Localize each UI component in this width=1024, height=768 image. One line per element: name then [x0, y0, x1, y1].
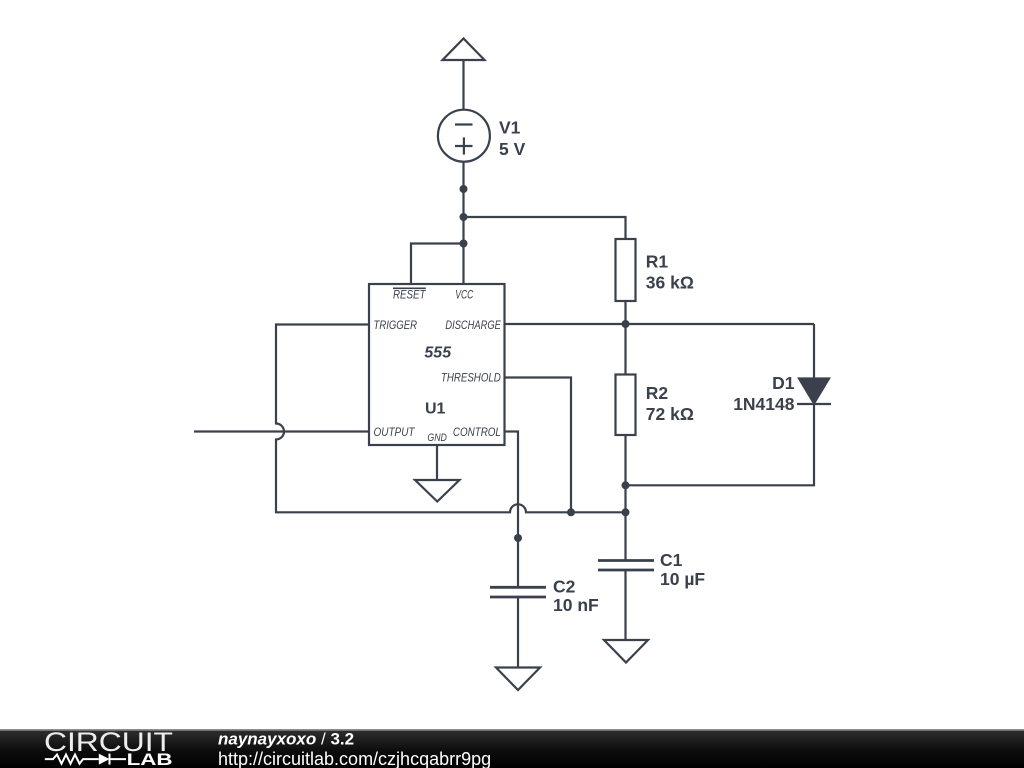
svg-text:RESET: RESET [393, 287, 427, 301]
svg-text:10 nF: 10 nF [553, 595, 599, 615]
svg-text:CONTROL: CONTROL [453, 425, 501, 439]
svg-text:555: 555 [424, 345, 452, 362]
wire to diode anode [813, 324, 815, 378]
wire OUTPUT stub [194, 430, 369, 432]
wire GND pin [436, 445, 438, 480]
svg-text:1N4148: 1N4148 [733, 394, 795, 414]
resistor R1 [616, 239, 636, 301]
svg-text:naynayxoxo / 3.2: naynayxoxo / 3.2 [218, 730, 354, 749]
capacitor C1 [598, 561, 654, 571]
svg-text:LAB: LAB [127, 751, 173, 768]
svg-text:http://circuitlab.com/czjhcqab: http://circuitlab.com/czjhcqabrr9pg [218, 749, 491, 768]
wire R2 bottom to C1 top [624, 435, 626, 561]
svg-text:TRIGGER: TRIGGER [374, 318, 418, 332]
ground below C1 [604, 640, 648, 663]
ground below C2 [496, 668, 540, 691]
svg-text:V1: V1 [499, 117, 521, 137]
wire C1 to ground [624, 570, 626, 640]
CircuitLab logo [44, 727, 173, 768]
svg-text:D1: D1 [772, 373, 795, 393]
svg-text:VCC: VCC [455, 287, 473, 301]
junction dot [460, 240, 468, 248]
capacitor C2 [490, 587, 546, 597]
svg-text:C2: C2 [553, 577, 576, 597]
svg-text:THRESHOLD: THRESHOLD [441, 370, 501, 384]
svg-text:DISCHARGE: DISCHARGE [445, 318, 501, 332]
wire R1 bottom to R2 top [624, 301, 626, 375]
wire to RESET pin [411, 244, 464, 285]
wire CONTROL to C2 [505, 432, 519, 587]
label V1 5 V [499, 117, 526, 159]
junction dot [622, 320, 630, 328]
svg-text:72 kΩ: 72 kΩ [646, 404, 694, 424]
wire V+ to V1 [462, 60, 464, 110]
svg-text:C1: C1 [660, 550, 683, 570]
junction dot [460, 213, 468, 221]
svg-text:R2: R2 [646, 383, 669, 403]
wire to R1 top [464, 217, 626, 239]
junction dot [514, 534, 522, 542]
junction dot [622, 481, 630, 489]
power supply V+ symbol [443, 39, 485, 61]
label C1 10 uF [660, 550, 705, 589]
junction dot [460, 185, 468, 193]
label D1 1N4148 [733, 373, 795, 414]
diode D1 [797, 379, 831, 405]
ground at GND pin [415, 480, 460, 502]
junction dot [567, 508, 575, 516]
footer bar [0, 729, 1024, 768]
wire C2 to ground [517, 597, 519, 668]
svg-text:GND: GND [427, 432, 447, 444]
svg-text:10 µF: 10 µF [660, 569, 705, 589]
junction dot [622, 508, 630, 516]
label R1 36 kohm [646, 252, 694, 293]
wire V1 to VCC pin [462, 162, 464, 284]
svg-text:R1: R1 [646, 252, 669, 272]
voltage source V1 [438, 110, 490, 162]
pin label RESET [393, 287, 427, 301]
wire TRIGGER to node with hops [276, 325, 626, 513]
label R2 72 kohm [646, 383, 694, 424]
svg-text:5 V: 5 V [499, 139, 526, 159]
svg-text:OUTPUT: OUTPUT [374, 425, 416, 439]
svg-text:U1: U1 [425, 400, 446, 417]
555 timer U1 box [369, 284, 505, 445]
wire THRESHOLD down [505, 378, 572, 513]
wire DISCHARGE to diode branch [505, 323, 815, 325]
label C2 10 nF [553, 577, 599, 615]
svg-text:36 kΩ: 36 kΩ [646, 273, 694, 293]
wire diode cathode to node [626, 404, 815, 485]
resistor R2 [616, 375, 636, 436]
